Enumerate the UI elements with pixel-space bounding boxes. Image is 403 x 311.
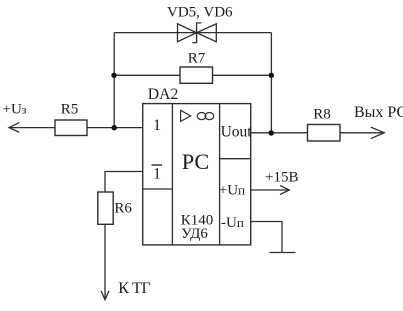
svg-text:R8: R8 xyxy=(313,106,331,122)
svg-text:УД6: УД6 xyxy=(181,226,208,242)
svg-text:-Uп: -Uп xyxy=(221,215,244,231)
svg-text:+15В: +15В xyxy=(265,170,298,186)
svg-text:К ТГ: К ТГ xyxy=(118,280,150,297)
svg-text:+Uз: +Uз xyxy=(3,101,27,117)
svg-text:Вых РС: Вых РС xyxy=(354,104,403,121)
svg-text:R5: R5 xyxy=(61,102,79,118)
svg-text:VD5, VD6: VD5, VD6 xyxy=(167,4,233,20)
svg-text:R6: R6 xyxy=(114,201,132,217)
svg-text:РС: РС xyxy=(182,149,210,174)
svg-text:DA2: DA2 xyxy=(148,86,179,103)
svg-text:+Uп: +Uп xyxy=(219,182,245,198)
svg-text:R7: R7 xyxy=(188,51,206,67)
svg-text:1: 1 xyxy=(153,165,161,182)
svg-text:Uout: Uout xyxy=(221,123,253,140)
svg-text:1: 1 xyxy=(153,117,161,134)
